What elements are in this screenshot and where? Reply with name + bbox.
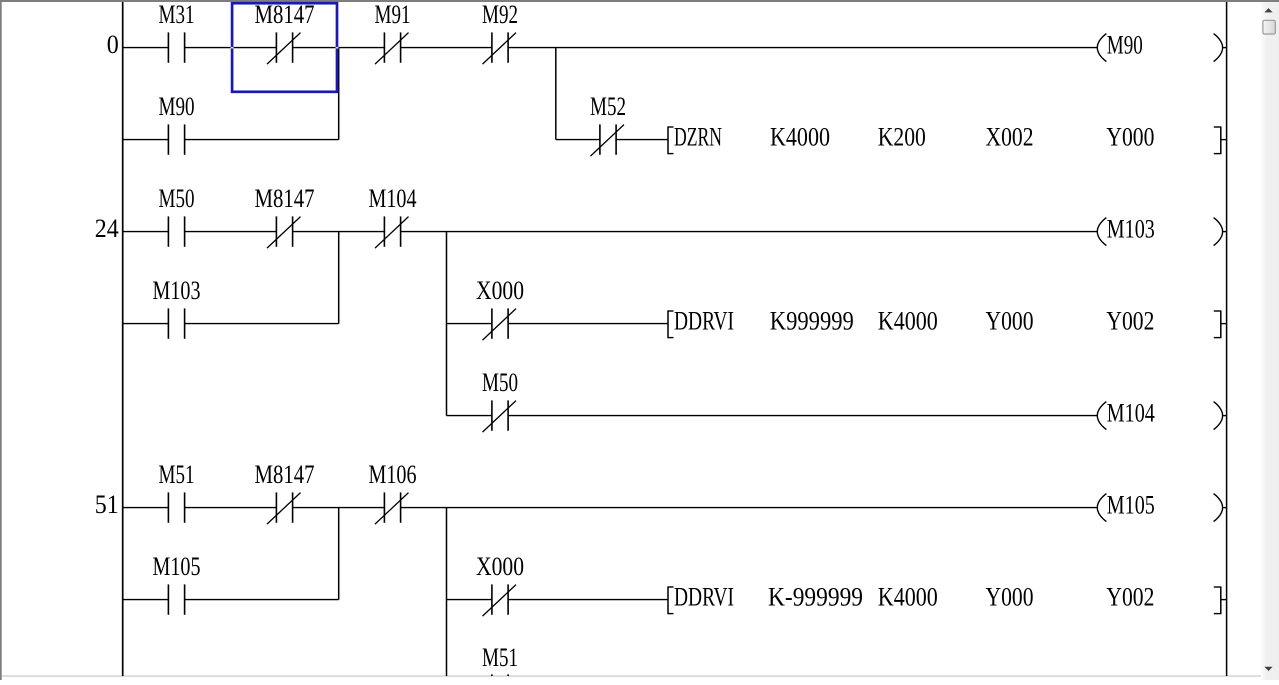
svg-text:X000: X000 [476, 552, 524, 581]
svg-text:X002: X002 [986, 123, 1034, 152]
svg-text:M103: M103 [1107, 215, 1155, 244]
svg-text:K4000: K4000 [878, 307, 938, 336]
svg-text:Y000: Y000 [1106, 123, 1154, 152]
svg-text:Y002: Y002 [1106, 307, 1154, 336]
svg-text:M90: M90 [1107, 31, 1143, 60]
svg-text:Y000: Y000 [986, 583, 1034, 612]
svg-text:M103: M103 [153, 276, 201, 305]
svg-text:X000: X000 [476, 276, 524, 305]
svg-text:M105: M105 [153, 552, 201, 581]
svg-text:Y000: Y000 [986, 307, 1034, 336]
svg-text:M90: M90 [159, 92, 195, 121]
svg-text:K999999: K999999 [770, 307, 854, 336]
svg-text:M92: M92 [482, 0, 518, 29]
svg-text:M106: M106 [369, 460, 417, 489]
svg-text:M104: M104 [1107, 399, 1155, 428]
svg-text:DDRVI: DDRVI [674, 307, 734, 336]
svg-text:K4000: K4000 [878, 583, 938, 612]
svg-text:DDRVI: DDRVI [674, 583, 734, 612]
svg-text:M50: M50 [482, 368, 518, 397]
svg-text:M52: M52 [590, 92, 626, 121]
svg-text:M31: M31 [159, 0, 195, 29]
svg-text:M51: M51 [159, 460, 195, 489]
svg-text:K200: K200 [878, 123, 926, 152]
svg-text:K4000: K4000 [770, 123, 830, 152]
svg-text:M8147: M8147 [255, 184, 315, 213]
svg-text:DZRN: DZRN [674, 123, 722, 152]
svg-text:24: 24 [95, 214, 119, 243]
svg-text:K-999999: K-999999 [768, 583, 863, 612]
svg-text:M51: M51 [482, 643, 518, 672]
svg-text:51: 51 [95, 490, 119, 519]
svg-text:Y002: Y002 [1106, 583, 1154, 612]
svg-text:M91: M91 [375, 0, 411, 29]
svg-text:0: 0 [107, 30, 119, 59]
svg-text:M8147: M8147 [255, 460, 315, 489]
svg-text:M104: M104 [369, 184, 417, 213]
svg-text:M50: M50 [159, 184, 195, 213]
svg-text:M105: M105 [1107, 491, 1155, 520]
